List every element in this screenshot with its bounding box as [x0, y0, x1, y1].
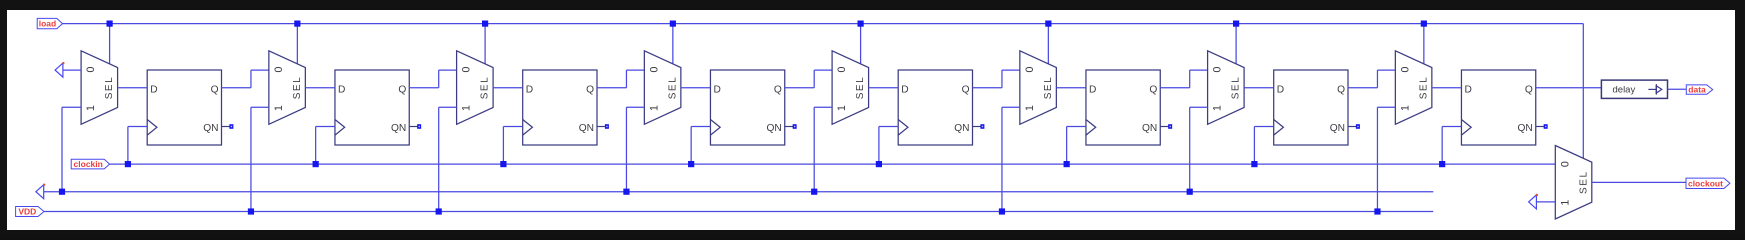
clock input triangle [1461, 120, 1471, 136]
svg-text:clockout: clockout [1688, 178, 1723, 188]
QN output stub [597, 126, 606, 128]
wire: SEL drop from load bus [1235, 24, 1237, 64]
QN unconnected terminal [1544, 124, 1548, 129]
junction [623, 189, 629, 195]
svg-text:QN: QN [1330, 123, 1345, 134]
svg-text:1: 1 [648, 105, 660, 111]
wire: Q to next mux input-0 [1160, 87, 1189, 89]
junction [811, 189, 817, 195]
svg-text:SEL: SEL [1043, 76, 1054, 100]
svg-text:QN: QN [954, 123, 969, 134]
mux (2-to-1, SEL at x=1424) [1395, 51, 1432, 125]
svg-text:SEL: SEL [292, 76, 303, 100]
QN output stub [409, 126, 418, 128]
wire: mux output to D [1056, 87, 1086, 89]
port clockout [1686, 178, 1730, 188]
D flip-flop (x=1461) [1461, 70, 1535, 145]
QN output stub [973, 126, 982, 128]
svg-text:1: 1 [1212, 105, 1224, 111]
wire: mux output to D [305, 87, 335, 89]
svg-text:D: D [1277, 84, 1284, 95]
D flip-flop (x=335) [335, 70, 409, 145]
wire: clock pin to clockin bus [316, 126, 335, 128]
wire: SEL drop from load bus [860, 24, 862, 64]
wire: VDD bus [44, 211, 1433, 213]
wire: mux output to D [1432, 87, 1462, 89]
wire: delay to data port [1668, 88, 1686, 90]
svg-text:D: D [526, 84, 533, 95]
junction on load bus [294, 21, 300, 27]
svg-text:1: 1 [461, 105, 473, 111]
svg-text:1: 1 [1024, 105, 1036, 111]
junction on load bus [482, 21, 488, 27]
mux (2-to-1, SEL at x=673) [644, 51, 681, 125]
junction [1374, 208, 1380, 214]
clock input triangle [523, 120, 533, 136]
wire: load bus drop to output mux SEL [1582, 24, 1584, 159]
svg-text:D: D [713, 84, 720, 95]
off-sheet arrow (feedback) [36, 185, 44, 199]
junction on clockin bus [688, 161, 694, 167]
wire: Q to next mux input-0 [409, 87, 438, 89]
QN unconnected terminal [229, 124, 233, 129]
mux (2-to-1, SEL at x=1048) [1020, 51, 1057, 125]
junction on clockin bus [313, 161, 319, 167]
svg-text:1: 1 [85, 105, 97, 111]
junction [248, 208, 254, 214]
wire: mux input-1 down to VDD bus [1377, 106, 1395, 108]
clock input triangle [710, 120, 720, 136]
junction on feedback bus [59, 189, 65, 195]
clock input triangle [335, 120, 345, 136]
mux (2-to-1, SEL at x=1584) [1555, 146, 1592, 220]
svg-text:D: D [1464, 84, 1471, 95]
svg-text:SEL: SEL [104, 76, 115, 100]
clock input triangle [147, 120, 157, 136]
svg-text:QN: QN [766, 123, 781, 134]
junction on load bus [1233, 21, 1239, 27]
svg-text:Q: Q [1149, 84, 1157, 95]
port load [37, 18, 62, 28]
wire: mux output to D [869, 87, 899, 89]
svg-text:0: 0 [1024, 66, 1036, 72]
wire: Q to next mux input-0 [1348, 87, 1377, 89]
svg-text:Q: Q [962, 84, 970, 95]
QN output stub [1160, 126, 1169, 128]
svg-text:0: 0 [1399, 66, 1411, 72]
wire: mux output to D [681, 87, 711, 89]
junction on clockin bus [1064, 161, 1070, 167]
QN unconnected terminal [980, 124, 984, 129]
svg-text:Q: Q [211, 84, 219, 95]
wire: Q to next mux input-0 [973, 87, 1002, 89]
junction on clockin bus [125, 161, 131, 167]
wire: mux output to D [493, 87, 523, 89]
QN unconnected terminal [417, 124, 421, 129]
port clockin [71, 159, 109, 169]
wire: clock pin to clockin bus [128, 126, 147, 128]
svg-text:SEL: SEL [480, 76, 491, 100]
svg-text:QN: QN [203, 123, 218, 134]
mux (2-to-1, SEL at x=485) [457, 51, 494, 125]
QN unconnected terminal [793, 124, 797, 129]
wire: mux input-1 down to feedback bus [1190, 106, 1208, 108]
svg-text:D: D [150, 84, 157, 95]
QN output stub [222, 126, 231, 128]
wire: Q to next mux input-0 [597, 87, 626, 89]
svg-text:1: 1 [1399, 105, 1411, 111]
delay element box [1601, 80, 1667, 98]
mux (2-to-1, SEL at x=297) [269, 51, 306, 125]
QN output stub [1348, 126, 1357, 128]
svg-text:0: 0 [648, 66, 660, 72]
wire: mux1 input-1 to feedback bus [62, 106, 81, 108]
svg-text:delay: delay [1613, 85, 1636, 96]
svg-text:clockin: clockin [74, 159, 103, 169]
svg-text:0: 0 [85, 66, 97, 72]
D flip-flop (x=1086) [1086, 70, 1160, 145]
wire: clock pin to clockin bus [691, 126, 710, 128]
junction [1187, 189, 1193, 195]
wire: mux input-1 down to feedback bus [814, 106, 832, 108]
wire: clock pin to clockin bus [879, 126, 898, 128]
svg-text:data: data [1688, 85, 1706, 95]
junction on clockin bus [500, 161, 506, 167]
junction on load bus [1045, 21, 1051, 27]
wire: mux input-1 down to VDD bus [439, 106, 457, 108]
svg-text:D: D [338, 84, 345, 95]
mux (2-to-1, SEL at x=1236) [1208, 51, 1245, 125]
junction on load bus [1421, 21, 1427, 27]
QN output stub [785, 126, 794, 128]
wire: SEL drop from load bus [296, 24, 298, 64]
svg-text:load: load [39, 19, 56, 29]
wire: mux output to D [1244, 87, 1274, 89]
svg-text:0: 0 [461, 66, 473, 72]
svg-text:SEL: SEL [1231, 76, 1242, 100]
QN unconnected terminal [605, 124, 609, 129]
wire: arrow to output mux input-1 [1529, 195, 1537, 209]
junction on load bus [858, 21, 864, 27]
port data [1686, 85, 1712, 94]
svg-text:0: 0 [273, 66, 285, 72]
mux (2-to-1, SEL at x=110) [81, 51, 118, 125]
wire: clock pin to clockin bus [1442, 126, 1461, 128]
svg-text:1: 1 [1559, 200, 1571, 206]
wire: mux input-1 down to VDD bus [1002, 106, 1020, 108]
port VDD [16, 207, 44, 217]
svg-text:1: 1 [836, 105, 848, 111]
D flip-flop (x=523) [523, 70, 597, 145]
delay arrow symbol [1648, 88, 1656, 90]
D flip-flop (x=1274) [1274, 70, 1348, 145]
svg-text:SEL: SEL [667, 76, 678, 100]
off-sheet arrow to mux1 input-0 [55, 63, 63, 77]
wire: SEL drop from load bus [484, 24, 486, 64]
wire: SEL drop from load bus [109, 24, 111, 64]
wire: SEL drop from load bus [1047, 24, 1049, 64]
svg-text:0: 0 [1559, 161, 1571, 167]
clock input triangle [898, 120, 908, 136]
svg-text:D: D [901, 84, 908, 95]
svg-text:Q: Q [398, 84, 406, 95]
svg-text:Q: Q [774, 84, 782, 95]
svg-text:SEL: SEL [1418, 76, 1429, 100]
wire: load bus across top [62, 23, 1584, 25]
mux (2-to-1, SEL at x=861) [832, 51, 869, 125]
wire: mux output to D [118, 87, 148, 89]
svg-text:0: 0 [1212, 66, 1224, 72]
wire: SEL drop from load bus [1423, 24, 1425, 64]
D flip-flop (x=710) [710, 70, 784, 145]
svg-text:QN: QN [391, 123, 406, 134]
wire: mux input-1 down to feedback bus [626, 106, 644, 108]
wire: Q to next mux input-0 [785, 87, 814, 89]
wire: feedback bus [44, 191, 1434, 193]
junction [436, 208, 442, 214]
wire: mux input-1 down to VDD bus [251, 106, 269, 108]
clock input triangle [1274, 120, 1284, 136]
svg-text:VDD: VDD [18, 207, 36, 217]
svg-text:0: 0 [836, 66, 848, 72]
wire: Q8 to delay element [1536, 87, 1602, 89]
svg-text:SEL: SEL [855, 76, 866, 100]
svg-text:Q: Q [1337, 84, 1345, 95]
svg-text:Q: Q [1525, 84, 1533, 95]
QN unconnected terminal [1168, 124, 1172, 129]
junction on load bus [670, 21, 676, 27]
svg-text:D: D [1089, 84, 1096, 95]
junction on clockin bus [1439, 161, 1445, 167]
junction on load bus [107, 21, 113, 27]
D flip-flop (x=147) [147, 70, 221, 145]
wire: clock pin to clockin bus [503, 126, 522, 128]
svg-text:Q: Q [586, 84, 594, 95]
svg-text:QN: QN [1517, 123, 1532, 134]
wire: arrow to mux1 input-0 [63, 69, 81, 71]
D flip-flop (x=898) [898, 70, 972, 145]
wire: output mux to clockout port [1592, 181, 1686, 183]
wire: clockin bus [110, 163, 1556, 165]
wire: Q to next mux input-0 [222, 87, 251, 89]
svg-text:QN: QN [1142, 123, 1157, 134]
junction on clockin bus [876, 161, 882, 167]
svg-text:1: 1 [273, 105, 285, 111]
svg-text:QN: QN [579, 123, 594, 134]
wire: clock pin to clockin bus [1067, 126, 1086, 128]
wire: SEL drop from load bus [672, 24, 674, 64]
wire: clock pin to clockin bus [1254, 126, 1273, 128]
QN unconnected terminal [1356, 124, 1360, 129]
QN output stub [1536, 126, 1545, 128]
junction [999, 208, 1005, 214]
clock input triangle [1086, 120, 1096, 136]
svg-text:SEL: SEL [1578, 170, 1589, 194]
junction on clockin bus [1251, 161, 1257, 167]
